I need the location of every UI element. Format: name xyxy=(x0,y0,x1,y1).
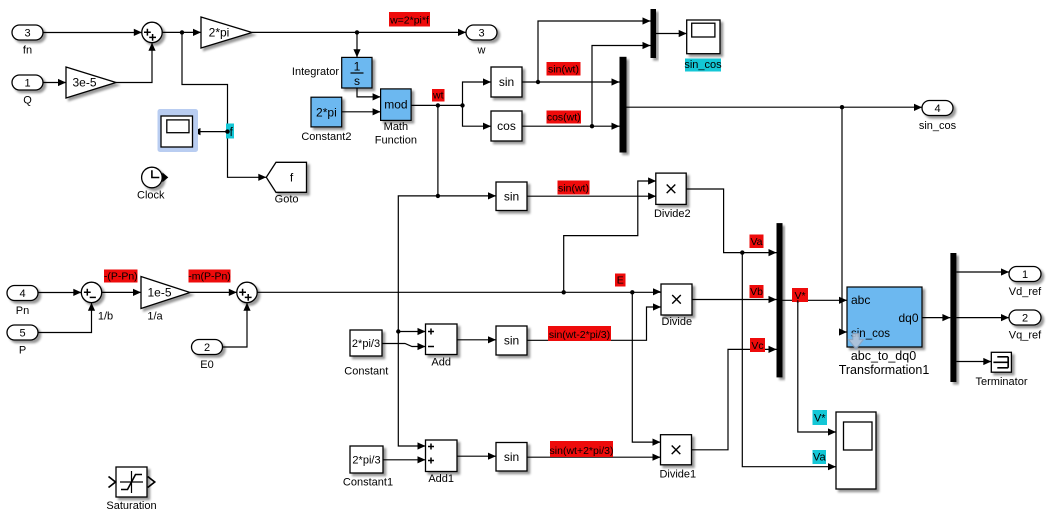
wire sin to Divide1 xyxy=(527,456,661,458)
trig block sin row3 xyxy=(496,326,527,355)
label w=2*pi*f xyxy=(389,12,430,27)
add block Add1 (++) xyxy=(426,440,458,485)
integrator block 1/s xyxy=(292,57,372,88)
svg-text:3e-5: 3e-5 xyxy=(72,75,96,89)
trig block sin row4 xyxy=(496,443,527,472)
svg-text:s: s xyxy=(354,74,360,88)
inport 4 Pn xyxy=(7,286,38,318)
svg-text:-m(P-Pn): -m(P-Pn) xyxy=(188,270,231,282)
terminator block xyxy=(976,352,1028,388)
svg-text:sin_cos: sin_cos xyxy=(684,59,722,71)
clock Clock xyxy=(137,167,168,201)
outport 4 sin_cos xyxy=(919,101,957,133)
label sin(wt-2*pi/3) xyxy=(548,326,611,341)
svg-text:P: P xyxy=(19,345,26,357)
label -m(P-Pn) xyxy=(188,270,231,283)
svg-text:Constant1: Constant1 xyxy=(343,477,393,489)
label V* xyxy=(792,288,808,302)
wire sin_cos down to abc_to_dq0 xyxy=(842,107,847,332)
svg-text:dq0: dq0 xyxy=(898,311,918,325)
wire sin to Divide2 xyxy=(527,195,656,197)
divide block Divide2 xyxy=(654,173,691,220)
wire P to Sum1 bottom xyxy=(38,303,92,333)
svg-text:cos(wt): cos(wt) xyxy=(547,111,581,123)
svg-text:sin_cos: sin_cos xyxy=(919,120,957,132)
wire f branch down to Goto xyxy=(182,32,266,177)
label -(P-Pn) xyxy=(104,270,138,283)
svg-text:Va: Va xyxy=(750,236,762,248)
mux big xyxy=(620,57,627,153)
wire E line to Divide xyxy=(257,291,661,293)
svg-text:5: 5 xyxy=(19,328,25,340)
scope bottom xyxy=(836,412,876,489)
svg-text:4: 4 xyxy=(934,103,940,115)
svg-text:Divide: Divide xyxy=(662,316,693,328)
svg-text:Divide1: Divide1 xyxy=(659,468,696,480)
constant Constant2 2*pi xyxy=(301,97,351,143)
wire mux to outport sin_cos xyxy=(627,106,923,108)
svg-text:Goto: Goto xyxy=(275,194,299,206)
wire wt to cos xyxy=(463,105,492,126)
svg-text:Vb: Vb xyxy=(750,286,763,298)
svg-text:1: 1 xyxy=(24,78,30,90)
wire Sum1 to gain 1/a xyxy=(102,291,141,293)
wire mux to abc_to_dq0 xyxy=(783,299,848,301)
divide block Divide xyxy=(661,284,692,328)
outport 2 Vq_ref xyxy=(1009,310,1042,342)
label sin(wt+2*pi/3) xyxy=(550,441,614,457)
wire Add to sin xyxy=(457,339,496,341)
svg-text:Terminator: Terminator xyxy=(976,376,1028,388)
label Va xyxy=(750,235,764,249)
wire E0 to Sum2 bottom xyxy=(223,303,248,347)
wire demux to Terminator xyxy=(956,361,991,363)
divide block Divide1 xyxy=(659,435,696,481)
wire Constant1 to Add1 xyxy=(383,459,426,461)
svg-text:mod: mod xyxy=(384,98,407,112)
wire small mux to scope sin_cos xyxy=(656,33,687,35)
trig block cos xyxy=(491,111,522,141)
wire down to Integrator xyxy=(356,32,358,57)
svg-text:2*pi: 2*pi xyxy=(316,105,337,119)
svg-text:sin(wt): sin(wt) xyxy=(558,182,589,194)
svg-text:1e-5: 1e-5 xyxy=(147,285,171,299)
gain 1e-5 1/a xyxy=(141,277,190,323)
svg-text:Pn: Pn xyxy=(16,305,29,317)
svg-text:E: E xyxy=(617,274,624,286)
svg-text:1: 1 xyxy=(354,60,361,74)
gain 3e-5 xyxy=(66,67,116,98)
saturation block xyxy=(106,467,156,512)
sum block 1/b (+-) xyxy=(81,282,113,322)
svg-text:Add1: Add1 xyxy=(428,473,454,485)
svg-text:Integrator: Integrator xyxy=(292,66,339,78)
wire 1/a to Sum2 xyxy=(190,291,237,293)
svg-text:sin: sin xyxy=(504,334,519,348)
svg-text:2*pi/3: 2*pi/3 xyxy=(352,454,380,466)
label Va highlighted xyxy=(813,450,827,464)
inport 1 Q xyxy=(12,75,43,107)
constant Constant 2*pi/3 xyxy=(344,330,388,378)
mux Va Vb Vc xyxy=(777,223,783,377)
math function mod xyxy=(375,89,417,147)
wire Integrator to mod xyxy=(357,88,381,97)
svg-text:Transformation1: Transformation1 xyxy=(839,363,930,377)
wire Sum to gain 2*pi with branch to f xyxy=(162,31,201,33)
wire fn to Sum xyxy=(43,32,142,34)
wire dq0 to demux xyxy=(922,317,950,319)
svg-text:Constant2: Constant2 xyxy=(301,131,351,143)
svg-text:2: 2 xyxy=(204,342,210,354)
wire sin branch to small mux xyxy=(538,21,651,82)
svg-text:sin(wt): sin(wt) xyxy=(548,63,579,75)
wire mod output wt xyxy=(411,104,462,106)
svg-text:sin: sin xyxy=(504,189,519,203)
outport 3 w xyxy=(466,25,497,57)
scope Scope (selected) xyxy=(158,109,199,152)
svg-text:-(P-Pn): -(P-Pn) xyxy=(104,270,138,282)
wire gain 3e-5 to Sum bottom xyxy=(116,43,152,83)
label sin_cos highlighted xyxy=(684,59,722,72)
demux xyxy=(950,253,956,382)
svg-text:2*pi: 2*pi xyxy=(209,25,230,39)
svg-text:w: w xyxy=(477,45,486,57)
outport 1 Vd_ref xyxy=(1009,267,1042,299)
wire Q to gain 3e-5 xyxy=(43,82,66,84)
inport 5 P xyxy=(7,325,38,357)
label Vb xyxy=(750,285,764,298)
sum block Sum (++) xyxy=(142,22,162,42)
label E xyxy=(615,274,626,287)
wire sin to Divide port2 xyxy=(527,307,661,340)
svg-text:2*pi/3: 2*pi/3 xyxy=(352,338,380,350)
svg-text:3: 3 xyxy=(478,28,484,40)
label wt xyxy=(432,89,445,102)
svg-text:Clock: Clock xyxy=(137,190,165,202)
wire Constant2 to mod xyxy=(342,111,381,113)
label cos(wt) xyxy=(547,111,582,124)
svg-text:cos: cos xyxy=(497,119,516,133)
svg-text:1/a: 1/a xyxy=(147,311,163,323)
svg-text:Function: Function xyxy=(375,135,417,147)
mux small xyxy=(651,9,657,58)
svg-text:sin: sin xyxy=(499,75,514,89)
svg-text:fn: fn xyxy=(23,45,32,57)
svg-text:1: 1 xyxy=(1022,269,1028,281)
sum block Sum2 (++) xyxy=(237,282,257,302)
svg-text:wt: wt xyxy=(432,89,444,101)
wire wt down to middle sin xyxy=(437,105,439,195)
wire 2*pi to outport w xyxy=(252,31,466,33)
wire f branch to Scope xyxy=(194,131,228,133)
subsystem abc_to_dq0 Transformation1 xyxy=(839,287,930,377)
wire Add1 to sin xyxy=(457,455,496,457)
wire demux to Vd_ref xyxy=(956,271,1009,273)
wire wt to sin xyxy=(463,82,492,105)
svg-text:sin: sin xyxy=(504,450,519,464)
wire sin to mux xyxy=(522,81,620,83)
svg-text:Vd_ref: Vd_ref xyxy=(1009,286,1042,298)
scope sin_cos xyxy=(687,20,720,54)
label V* highlighted xyxy=(813,410,828,425)
svg-text:3: 3 xyxy=(24,28,30,40)
svg-text:abc_to_dq0: abc_to_dq0 xyxy=(851,349,916,363)
svg-text:abc: abc xyxy=(851,293,870,307)
gain 2*pi xyxy=(201,17,252,48)
inport 3 fn xyxy=(12,25,43,57)
wire cos to mux xyxy=(522,125,620,127)
svg-text:Saturation: Saturation xyxy=(106,500,156,512)
inport 2 E0 xyxy=(192,340,223,372)
svg-text:Vq_ref: Vq_ref xyxy=(1009,330,1042,342)
wire demux to Vq_ref xyxy=(956,317,1009,319)
svg-text:1/b: 1/b xyxy=(98,311,113,323)
wire Constant to Add xyxy=(382,344,426,347)
wire V* branch to scope xyxy=(798,300,836,432)
svg-text:Math: Math xyxy=(384,121,408,133)
wire wt down to Add blocks xyxy=(398,196,438,446)
svg-text:Divide2: Divide2 xyxy=(654,208,691,220)
svg-text:V*: V* xyxy=(814,413,826,425)
wire cos branch to small mux xyxy=(592,46,651,127)
wire Divide1 to mux Vc xyxy=(692,349,777,449)
svg-text:E0: E0 xyxy=(200,359,213,371)
wire E branch down to Divide1 xyxy=(632,292,660,442)
svg-text:V*: V* xyxy=(794,290,805,302)
svg-text:Constant: Constant xyxy=(344,366,388,378)
constant Constant1 2*pi/3 xyxy=(343,446,393,489)
signal tag f xyxy=(225,124,234,139)
label Vc xyxy=(750,338,765,352)
svg-text:2: 2 xyxy=(1022,313,1028,325)
svg-text:sin(wt-2*pi/3): sin(wt-2*pi/3) xyxy=(549,329,610,341)
svg-text:Vc: Vc xyxy=(751,340,763,352)
wire Divide2 to mux Va xyxy=(686,189,776,253)
trig block sin xyxy=(491,67,522,97)
label sin(wt) middle xyxy=(558,181,590,195)
svg-text:4: 4 xyxy=(19,288,25,300)
svg-text:Add: Add xyxy=(431,357,451,369)
label sin(wt) xyxy=(547,62,581,76)
svg-text:sin(wt+2*pi/3): sin(wt+2*pi/3) xyxy=(550,445,614,457)
trig block sin middle xyxy=(496,182,527,211)
wire E branch up to Divide2 xyxy=(564,181,656,292)
svg-text:w=2*pi*f: w=2*pi*f xyxy=(389,14,429,26)
svg-text:Va: Va xyxy=(813,452,827,464)
wire Pn to Sum1 xyxy=(38,292,81,294)
svg-text:Q: Q xyxy=(23,95,32,107)
wire Va branch down to scope xyxy=(742,253,836,467)
wire Divide to mux Vb xyxy=(692,299,777,301)
goto block Goto f xyxy=(266,162,306,205)
add block Add (+-) xyxy=(426,324,458,369)
